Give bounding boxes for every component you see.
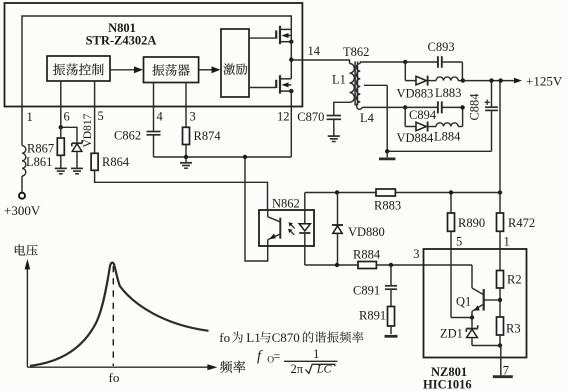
svg-text:5: 5 xyxy=(98,109,104,123)
svg-text:6: 6 xyxy=(64,110,70,124)
svg-text:L883: L883 xyxy=(435,86,461,100)
svg-text:R2: R2 xyxy=(507,273,522,287)
svg-text:HIC1016: HIC1016 xyxy=(423,378,472,391)
svg-text:R864: R864 xyxy=(102,155,130,169)
svg-text:Q1: Q1 xyxy=(456,295,471,309)
svg-text:C870: C870 xyxy=(297,110,324,124)
svg-text:R472: R472 xyxy=(508,216,535,230)
svg-text:R874: R874 xyxy=(194,129,222,143)
svg-text:VD880: VD880 xyxy=(348,225,385,239)
svg-text:R883: R883 xyxy=(374,199,401,213)
svg-text:fo: fo xyxy=(219,330,230,345)
svg-text:C894: C894 xyxy=(409,108,437,122)
svg-text:T862: T862 xyxy=(343,45,369,59)
svg-text:5: 5 xyxy=(456,235,462,249)
svg-text:VD883: VD883 xyxy=(397,87,434,101)
svg-text:R890: R890 xyxy=(458,216,485,230)
svg-text:VD884: VD884 xyxy=(397,131,435,145)
svg-text:R867: R867 xyxy=(27,142,54,156)
svg-text:R891: R891 xyxy=(359,309,386,323)
svg-text:+125V: +125V xyxy=(526,74,563,89)
svg-text:1: 1 xyxy=(313,347,319,361)
svg-text:STR-Z4302A: STR-Z4302A xyxy=(86,34,157,48)
svg-text:7: 7 xyxy=(503,364,509,378)
svg-text:3: 3 xyxy=(190,110,196,124)
svg-text:R3: R3 xyxy=(506,322,521,336)
svg-text:ZD1: ZD1 xyxy=(440,327,463,341)
svg-text:L4: L4 xyxy=(360,111,375,125)
svg-text:3: 3 xyxy=(413,247,419,261)
svg-text:14: 14 xyxy=(308,44,321,58)
svg-text:C891: C891 xyxy=(353,284,380,298)
svg-text:C870: C870 xyxy=(272,330,300,345)
svg-text:1: 1 xyxy=(504,235,510,249)
svg-text:VD817: VD817 xyxy=(82,113,94,147)
svg-text:12: 12 xyxy=(277,110,290,124)
svg-text:+300V: +300V xyxy=(4,203,41,218)
svg-text:1: 1 xyxy=(27,110,33,124)
svg-text:R884: R884 xyxy=(353,247,381,261)
svg-text:C893: C893 xyxy=(428,40,455,54)
svg-text:L1: L1 xyxy=(246,330,260,345)
svg-text:L1: L1 xyxy=(332,73,346,87)
svg-text:2π: 2π xyxy=(291,362,304,376)
svg-text:=: = xyxy=(274,349,281,363)
svg-text:4: 4 xyxy=(157,110,164,124)
svg-text:N862: N862 xyxy=(272,197,300,211)
svg-text:L861: L861 xyxy=(26,155,52,169)
svg-text:LC: LC xyxy=(316,362,333,376)
svg-text:C884: C884 xyxy=(468,93,482,121)
svg-text:C862: C862 xyxy=(114,129,141,143)
svg-text:fo: fo xyxy=(109,370,120,385)
svg-text:L884: L884 xyxy=(434,130,461,144)
